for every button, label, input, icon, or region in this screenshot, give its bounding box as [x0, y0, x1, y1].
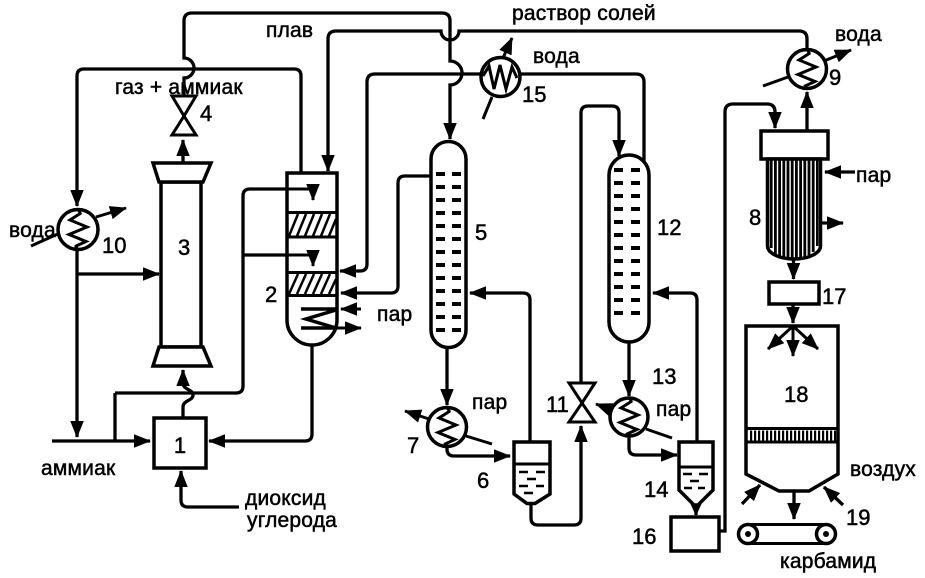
- steam outlet arrow from reactor 2 coil: [337, 327, 361, 330]
- svg-text:вода: вода: [835, 23, 882, 46]
- wire exchanger 13 to separator 14: [629, 436, 677, 455]
- wire evaporator 8 bottom to box 17: [792, 259, 795, 279]
- evaporator 8 tubes: [771, 159, 817, 258]
- wire branch into column 3: [77, 272, 159, 275]
- svg-text:плав: плав: [266, 19, 313, 42]
- svg-text:13: 13: [652, 364, 676, 389]
- svg-text:18: 18: [784, 382, 808, 407]
- tower 18 grid strip: [746, 429, 838, 443]
- svg-text:пар: пар: [377, 303, 412, 326]
- svg-text:17: 17: [822, 284, 846, 309]
- tower 18: [746, 326, 838, 491]
- valve 11: [569, 383, 595, 403]
- exchanger 10: [58, 210, 98, 250]
- svg-text:воздух: воздух: [850, 458, 916, 481]
- wire CO2 feed into mixer 1: [181, 471, 239, 507]
- svg-text:газ + аммиак: газ + аммиак: [115, 76, 243, 99]
- mixer 1: [154, 418, 206, 468]
- svg-text:вода: вода: [9, 219, 56, 242]
- svg-text:6: 6: [477, 468, 489, 493]
- exchanger 15: [481, 58, 520, 97]
- wire riser x115: [113, 393, 116, 441]
- reactor 2 body: [287, 173, 337, 345]
- wire from separator 6 top up into column 5 right wall: [470, 293, 530, 442]
- exchanger 7: [428, 408, 467, 447]
- reactor 2 tray lines: [287, 213, 337, 296]
- conveyor wheel right: [817, 525, 836, 544]
- column 5: [431, 142, 466, 348]
- svg-text:пар: пар: [472, 391, 507, 414]
- evaporator 8 body: [768, 159, 821, 259]
- reactor 2 spray stems redrawn inside: [287, 189, 313, 200]
- svg-text:1: 1: [174, 433, 186, 458]
- svg-text:вода: вода: [533, 45, 580, 68]
- air arrow right: [824, 487, 843, 505]
- svg-text:10: 10: [102, 233, 126, 258]
- wire mixer 1 top to column 3 bottom (with wiggle): [183, 370, 193, 418]
- evaporator 8 header: [761, 131, 828, 159]
- svg-text:диоксид: диоксид: [245, 487, 326, 510]
- wire salt solution: from exchanger 9 top, left run y=31, down into reactor 2: [328, 31, 807, 171]
- tank 16: [671, 517, 719, 551]
- box 17: [769, 282, 819, 304]
- separator 14: [679, 442, 713, 505]
- svg-text:9: 9: [829, 65, 841, 90]
- svg-text:12: 12: [657, 215, 681, 240]
- wire branch into reactor 2 second spray: [243, 255, 313, 266]
- wire gas+ammonia: valve 4 up, top run, down into column 5: [184, 13, 462, 139]
- column 3: [161, 182, 201, 347]
- exchanger 13: [610, 398, 648, 436]
- svg-text:8: 8: [749, 205, 761, 230]
- reactor 2 hatch band 2: [289, 274, 336, 294]
- wire evaporator 8 top to exchanger 9: [805, 92, 808, 131]
- svg-text:16: 16: [632, 524, 656, 549]
- svg-text:11: 11: [546, 392, 569, 417]
- steam arrow into reactor 2 coil: [341, 308, 361, 311]
- svg-text:пар: пар: [856, 164, 891, 187]
- wire from corner x367 through exchanger 15 into column 12 top: [340, 74, 644, 271]
- wire separator 14 top to column 12: [653, 293, 697, 442]
- column 12 packing dashes: [614, 170, 640, 313]
- svg-text:карбамид: карбамид: [780, 550, 876, 573]
- wire valve 11 top to column 12: [581, 106, 619, 383]
- wire separator 14 bottom to tank 16: [694, 503, 697, 515]
- svg-text:углерода: углерода: [247, 509, 337, 532]
- valve 4: [172, 96, 196, 116]
- svg-text:раствор солей: раствор солей: [512, 2, 656, 25]
- svg-text:14: 14: [644, 477, 668, 502]
- outlet arrow from evaporator 8: [820, 221, 843, 224]
- spray arrows inside tower 18: [768, 326, 818, 356]
- reactor 2 hatch band 1: [289, 214, 336, 236]
- wire tank 16 riser to evaporator 8: [719, 104, 775, 531]
- wire tower 18 outlet to conveyor: [792, 492, 795, 519]
- svg-text:4: 4: [200, 101, 212, 126]
- svg-text:аммиак: аммиак: [41, 457, 116, 480]
- wire reactor 2 bottom to mixer 1: [209, 346, 312, 441]
- column 5 packing dashes: [436, 174, 461, 330]
- exchanger 9: [788, 50, 827, 89]
- wire box 17 to tower 18: [791, 304, 794, 323]
- conveyor wheel left: [739, 525, 758, 544]
- wire column 3 to valve 4: [181, 140, 184, 162]
- wire from reactor 2 top to exchanger 10: [77, 69, 301, 206]
- steam arrow into evaporator 8: [825, 170, 855, 173]
- wire exchanger 10 bottom down to ammonia line: [75, 250, 78, 437]
- reactor 2 heating coil: [301, 309, 337, 328]
- wire column 5 bottom to exchanger 7: [445, 349, 448, 405]
- wire from column 5 left wall down into reactor 2: [341, 176, 431, 293]
- conveyor 19 belt: [748, 525, 826, 544]
- wire ammonia feed into mixer 1: [52, 439, 150, 442]
- svg-text:15: 15: [522, 82, 546, 107]
- svg-text:пар: пар: [656, 398, 691, 421]
- air arrow left: [742, 485, 760, 504]
- separator 6: [514, 442, 550, 504]
- column 12: [609, 155, 649, 342]
- svg-text:5: 5: [475, 220, 487, 245]
- svg-text:3: 3: [178, 235, 190, 260]
- wire exchanger 7 to separator 6: [447, 447, 510, 456]
- wire column 12 bottom to exchanger 13: [627, 342, 630, 396]
- wire separator 6 bottom loop to valve 11: [531, 426, 581, 525]
- wire y393 up x243 into reactor 2 internal spray: [115, 189, 313, 393]
- svg-text:7: 7: [407, 433, 419, 458]
- svg-text:19: 19: [846, 505, 870, 530]
- svg-text:2: 2: [265, 282, 277, 307]
